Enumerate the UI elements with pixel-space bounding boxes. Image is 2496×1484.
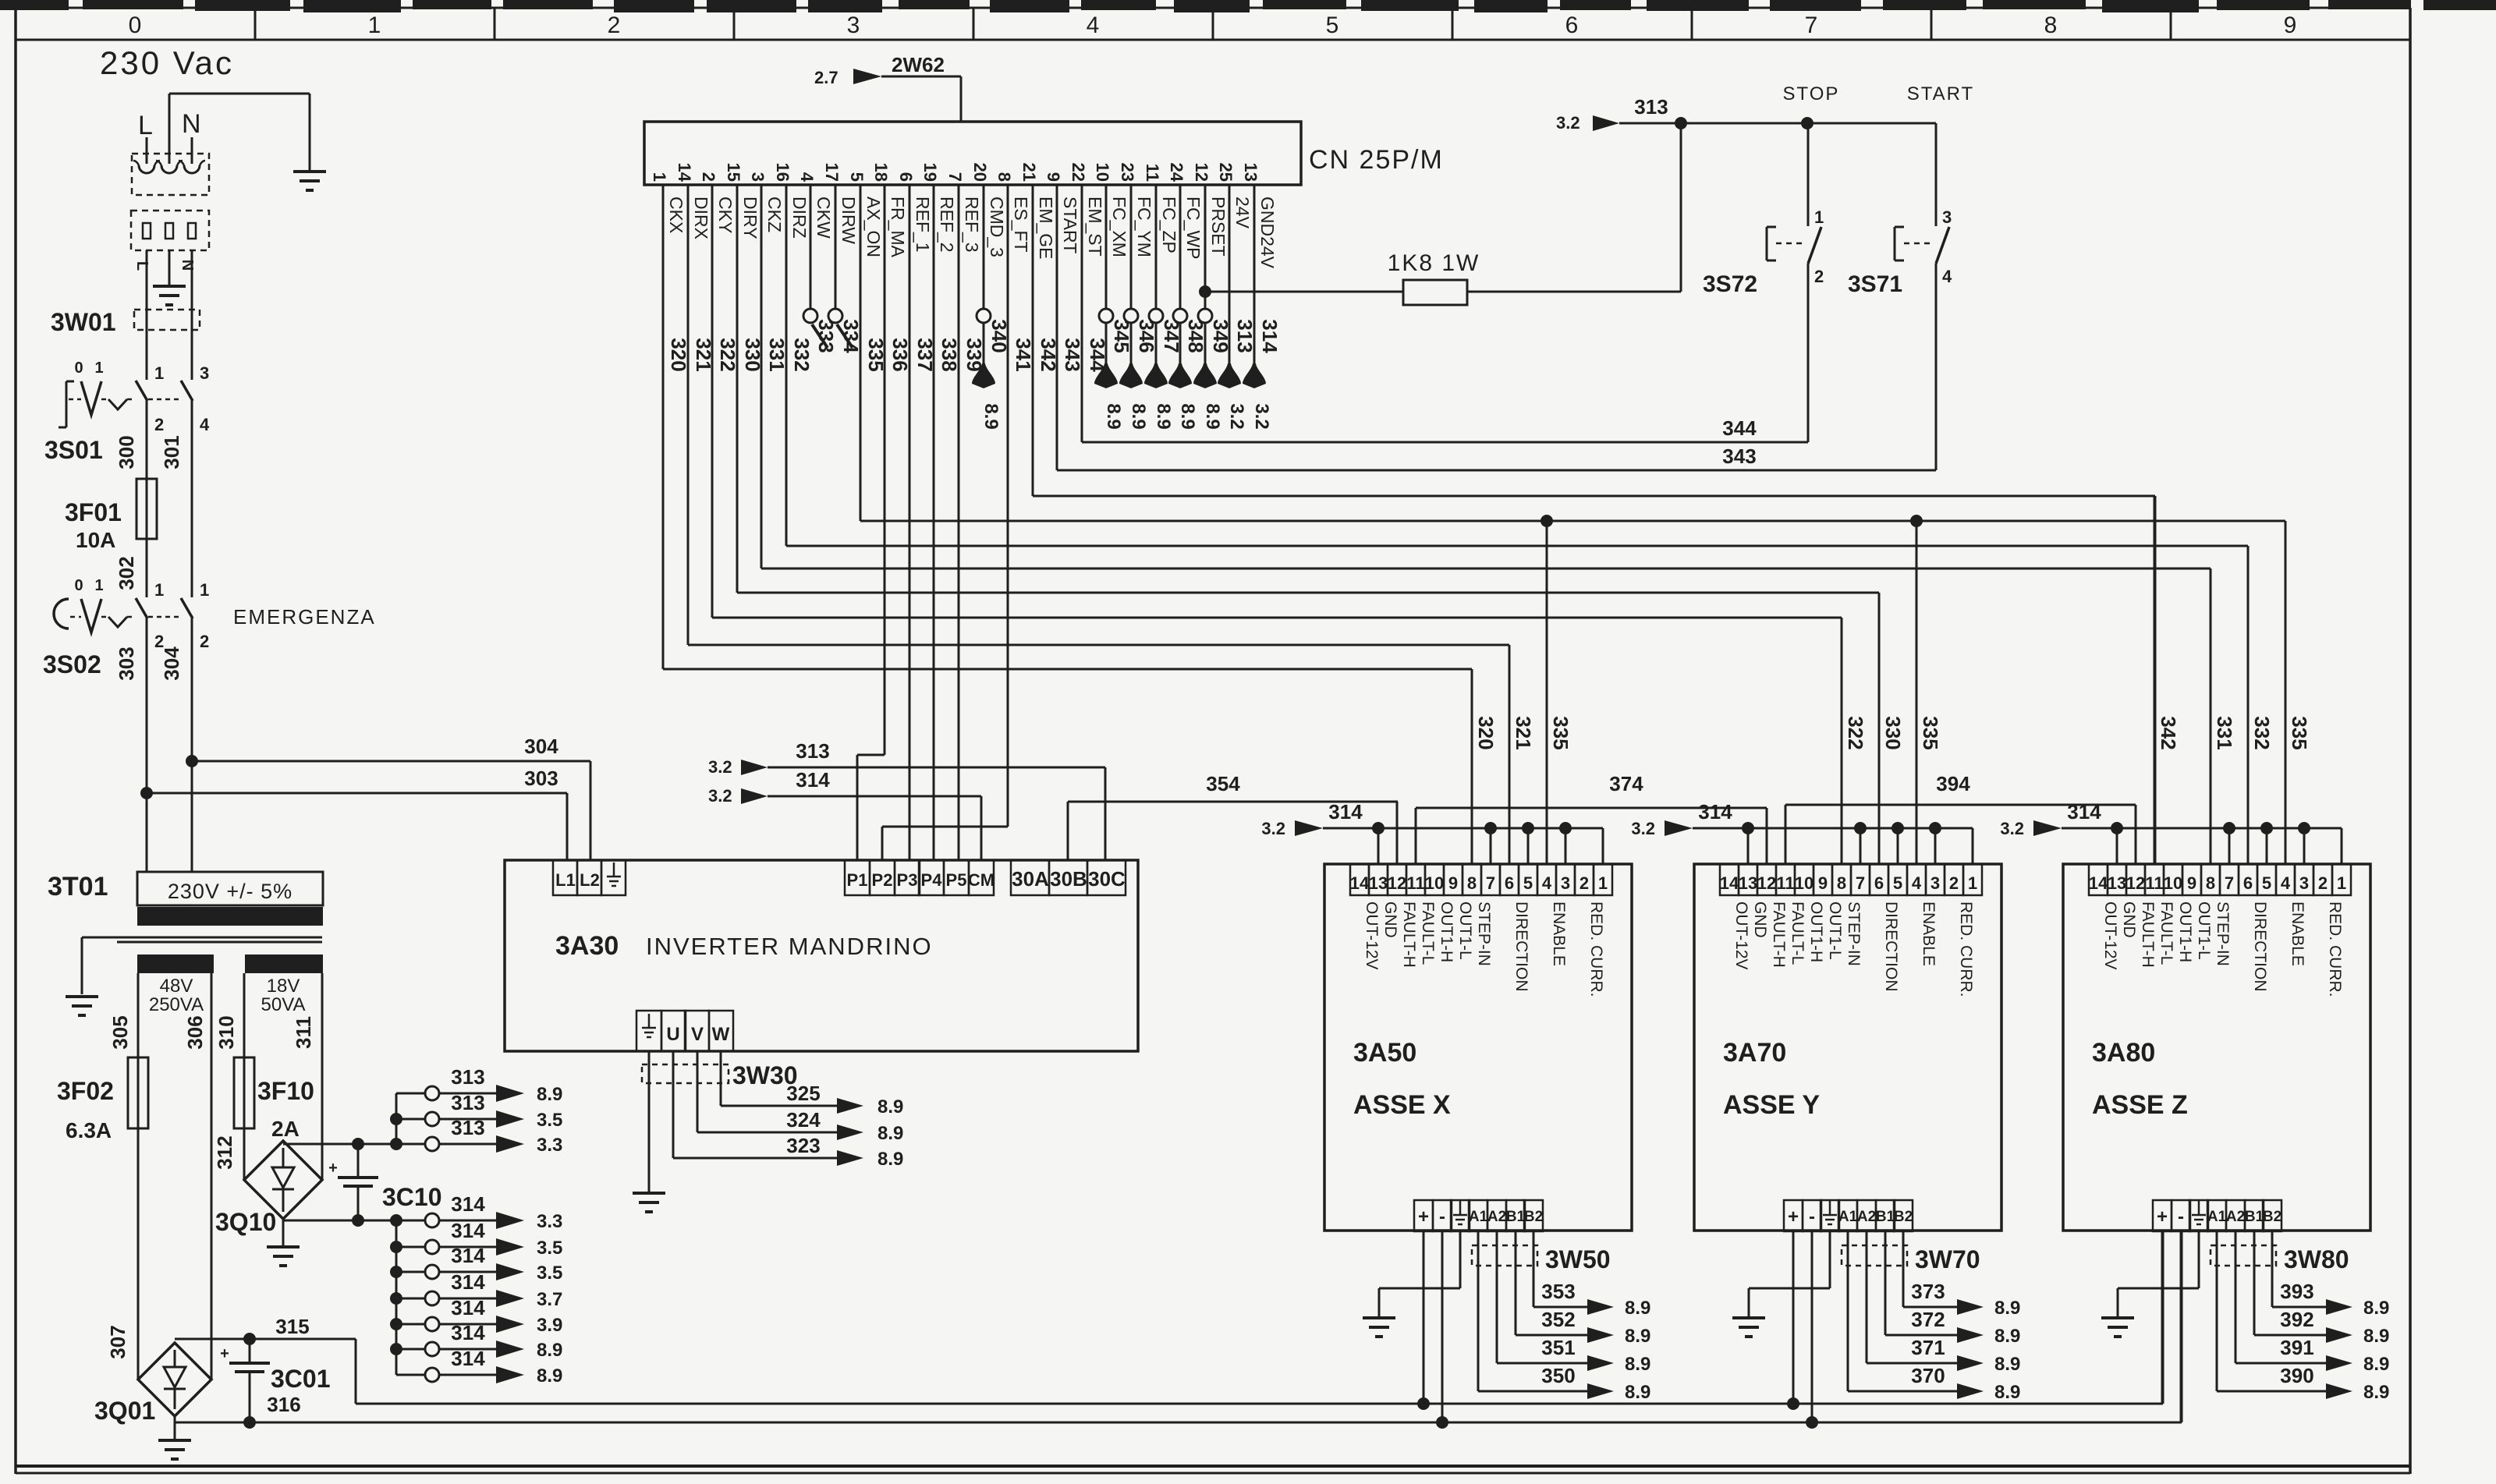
svg-text:6.3A: 6.3A [66, 1118, 112, 1142]
svg-text:10: 10 [1795, 873, 1813, 893]
svg-text:2: 2 [154, 415, 164, 434]
svg-text:3.2: 3.2 [2000, 819, 2024, 838]
svg-text:P5: P5 [946, 870, 967, 890]
svg-text:GND24V: GND24V [1257, 197, 1278, 269]
svg-text:1: 1 [1968, 873, 1977, 893]
svg-text:DIRY: DIRY [740, 197, 760, 239]
svg-text:B2: B2 [1894, 1209, 1913, 1225]
svg-text:3: 3 [200, 363, 209, 383]
svg-text:332: 332 [790, 338, 814, 371]
svg-text:24: 24 [1167, 163, 1186, 182]
svg-text:310: 310 [214, 1015, 238, 1049]
svg-text:3C10: 3C10 [382, 1183, 442, 1211]
svg-text:3.3: 3.3 [537, 1211, 562, 1232]
svg-text:B1: B1 [1876, 1209, 1895, 1225]
svg-text:3.5: 3.5 [537, 1263, 562, 1284]
svg-text:6: 6 [896, 172, 916, 182]
svg-text:314: 314 [451, 1219, 485, 1242]
svg-text:6: 6 [1505, 873, 1514, 893]
svg-text:8: 8 [2044, 12, 2058, 38]
svg-text:352: 352 [1541, 1308, 1575, 1331]
svg-text:230 Vac: 230 Vac [100, 44, 234, 81]
svg-text:25: 25 [1216, 163, 1236, 182]
svg-text:INVERTER MANDRINO: INVERTER MANDRINO [646, 933, 933, 960]
svg-text:20: 20 [970, 163, 990, 182]
svg-text:331: 331 [2213, 716, 2236, 749]
svg-text:322: 322 [1844, 716, 1867, 749]
svg-text:3W50: 3W50 [1545, 1245, 1611, 1273]
svg-text:7: 7 [2225, 873, 2234, 893]
svg-text:250VA: 250VA [149, 994, 204, 1015]
svg-text:3: 3 [1561, 873, 1570, 893]
svg-text:14: 14 [1720, 873, 1739, 893]
svg-text:3S02: 3S02 [43, 650, 101, 678]
svg-text:3A70: 3A70 [1723, 1038, 1786, 1068]
svg-text:1: 1 [1598, 873, 1608, 893]
svg-text:CM: CM [968, 870, 994, 890]
svg-text:P3: P3 [897, 870, 918, 890]
svg-text:0: 0 [74, 359, 83, 377]
svg-text:1: 1 [2337, 873, 2346, 893]
svg-text:3.2: 3.2 [1631, 819, 1655, 838]
svg-text:6: 6 [1565, 12, 1579, 38]
svg-text:3.2: 3.2 [1556, 113, 1580, 133]
svg-text:23: 23 [1118, 163, 1137, 182]
svg-text:REF_1: REF_1 [913, 197, 933, 253]
svg-text:DIRECTION: DIRECTION [1882, 901, 1900, 992]
svg-text:12: 12 [1192, 163, 1211, 182]
svg-text:OUT1-L: OUT1-L [1826, 901, 1844, 960]
svg-text:2A: 2A [271, 1117, 300, 1141]
svg-text:3W01: 3W01 [51, 308, 116, 336]
svg-text:8.9: 8.9 [980, 403, 1002, 429]
svg-text:22: 22 [1069, 163, 1088, 182]
svg-text:+: + [1418, 1206, 1429, 1227]
svg-text:330: 330 [1881, 716, 1905, 749]
svg-text:313: 313 [796, 739, 829, 763]
svg-text:5: 5 [1523, 873, 1533, 893]
svg-text:CKY: CKY [715, 197, 736, 233]
svg-text:11: 11 [1776, 873, 1794, 893]
svg-text:230V +/- 5%: 230V +/- 5% [168, 880, 292, 903]
svg-text:307: 307 [106, 1325, 129, 1358]
svg-text:ENABLE: ENABLE [1550, 901, 1568, 966]
svg-text:5: 5 [847, 172, 867, 182]
svg-text:8.9: 8.9 [1994, 1298, 2020, 1319]
svg-text:314: 314 [1328, 800, 1363, 823]
svg-text:FR_MA: FR_MA [888, 197, 908, 258]
svg-text:DIRX: DIRX [691, 197, 711, 239]
svg-text:14: 14 [2089, 873, 2108, 893]
svg-text:3.2: 3.2 [1226, 403, 1247, 429]
svg-text:AX_ON: AX_ON [863, 197, 884, 257]
svg-text:CKZ: CKZ [764, 197, 785, 232]
svg-text:10: 10 [1093, 163, 1112, 182]
svg-text:353: 353 [1541, 1280, 1575, 1303]
svg-text:ES_FT: ES_FT [1011, 197, 1031, 253]
svg-text:A2: A2 [2226, 1209, 2245, 1225]
svg-text:8: 8 [1467, 873, 1477, 893]
svg-text:8.9: 8.9 [1177, 403, 1198, 429]
svg-text:+: + [1788, 1206, 1799, 1227]
svg-text:3Q10: 3Q10 [215, 1208, 276, 1236]
svg-text:1: 1 [368, 12, 381, 38]
svg-text:A1: A1 [1838, 1209, 1858, 1225]
svg-text:372: 372 [1911, 1308, 1945, 1331]
svg-text:OUT1-L: OUT1-L [2195, 901, 2213, 960]
svg-text:316: 316 [267, 1393, 300, 1416]
svg-text:STEP-IN: STEP-IN [1845, 901, 1863, 966]
svg-text:314: 314 [1258, 319, 1282, 353]
svg-text:8.9: 8.9 [2363, 1382, 2389, 1403]
svg-text:11: 11 [2145, 873, 2163, 893]
svg-text:350: 350 [1541, 1364, 1575, 1387]
svg-text:CKW: CKW [814, 197, 834, 239]
svg-text:STEP-IN: STEP-IN [1475, 901, 1493, 966]
svg-text:-: - [1439, 1206, 1445, 1227]
svg-text:GND: GND [2120, 901, 2138, 938]
svg-text:18: 18 [871, 163, 891, 182]
svg-text:3S72: 3S72 [1703, 271, 1757, 297]
svg-text:CKX: CKX [666, 197, 686, 233]
svg-text:2: 2 [1579, 873, 1589, 893]
svg-text:8: 8 [1837, 873, 1846, 893]
svg-text:313: 313 [1634, 95, 1668, 119]
svg-text:L: L [133, 261, 151, 271]
svg-text:8.9: 8.9 [877, 1123, 903, 1144]
svg-text:OUT1-H: OUT1-H [2176, 901, 2194, 962]
svg-text:15: 15 [724, 163, 743, 182]
svg-text:394: 394 [1936, 772, 1970, 795]
svg-text:ASSE X: ASSE X [1353, 1090, 1451, 1120]
svg-text:10A: 10A [76, 528, 115, 552]
svg-text:302: 302 [115, 556, 138, 590]
svg-text:+: + [328, 1160, 338, 1177]
svg-text:305: 305 [108, 1015, 132, 1049]
svg-text:304: 304 [524, 735, 558, 758]
svg-text:4: 4 [1087, 12, 1100, 38]
svg-text:L1: L1 [555, 870, 576, 890]
svg-text:4: 4 [1542, 873, 1552, 893]
svg-text:311: 311 [292, 1016, 315, 1049]
svg-text:8.9: 8.9 [1103, 403, 1124, 429]
svg-text:4: 4 [200, 415, 210, 434]
svg-text:5: 5 [2262, 873, 2271, 893]
svg-text:V: V [691, 1024, 704, 1045]
svg-text:1: 1 [1814, 207, 1824, 227]
svg-text:24V: 24V [1232, 197, 1253, 229]
svg-text:+: + [2157, 1206, 2168, 1227]
svg-text:13: 13 [1369, 873, 1388, 893]
svg-text:1: 1 [200, 580, 209, 600]
svg-text:8.9: 8.9 [1625, 1354, 1650, 1375]
svg-text:1: 1 [154, 363, 164, 383]
svg-text:7: 7 [945, 172, 965, 182]
svg-text:314: 314 [451, 1192, 485, 1216]
svg-text:7: 7 [1856, 873, 1865, 893]
svg-text:A1: A1 [1469, 1209, 1488, 1225]
svg-text:13: 13 [2108, 873, 2126, 893]
svg-text:0: 0 [129, 12, 142, 38]
svg-text:3.2: 3.2 [1251, 403, 1272, 429]
svg-text:DIRECTION: DIRECTION [2251, 901, 2269, 992]
svg-text:8.9: 8.9 [2363, 1354, 2389, 1375]
svg-text:12: 12 [2126, 873, 2145, 893]
svg-text:OUT-12V: OUT-12V [1732, 901, 1750, 970]
svg-text:335: 335 [1919, 716, 1942, 749]
svg-text:312: 312 [213, 1135, 236, 1169]
svg-text:4: 4 [1942, 267, 1952, 286]
svg-text:+: + [220, 1345, 229, 1362]
svg-text:13: 13 [1241, 163, 1260, 182]
svg-text:5: 5 [1893, 873, 1902, 893]
svg-text:3T01: 3T01 [48, 872, 108, 901]
svg-text:RED. CURR.: RED. CURR. [1957, 901, 1975, 997]
svg-text:FAULT-H: FAULT-H [1400, 901, 1418, 968]
svg-text:B2: B2 [1524, 1209, 1543, 1225]
svg-text:9: 9 [1448, 873, 1458, 893]
svg-text:8.9: 8.9 [1625, 1382, 1650, 1403]
svg-text:8.9: 8.9 [537, 1084, 562, 1105]
svg-text:343: 343 [1722, 444, 1756, 468]
svg-text:3F02: 3F02 [57, 1077, 114, 1105]
svg-text:DIRW: DIRW [838, 197, 859, 244]
svg-text:L: L [138, 111, 153, 140]
svg-text:-: - [2178, 1206, 2184, 1227]
svg-text:392: 392 [2280, 1308, 2313, 1331]
svg-text:3.2: 3.2 [708, 786, 732, 806]
svg-text:13: 13 [1739, 873, 1757, 893]
svg-text:8: 8 [994, 172, 1014, 182]
svg-text:342: 342 [2157, 716, 2180, 749]
svg-text:11: 11 [1406, 873, 1424, 893]
svg-text:3: 3 [1930, 873, 1940, 893]
svg-text:303: 303 [524, 767, 558, 790]
svg-text:3: 3 [2299, 873, 2309, 893]
svg-text:8.9: 8.9 [1153, 403, 1174, 429]
svg-text:2: 2 [699, 172, 718, 182]
svg-text:FAULT-H: FAULT-H [2139, 901, 2157, 968]
svg-text:GND: GND [1381, 901, 1399, 938]
svg-text:A1: A1 [2207, 1209, 2227, 1225]
svg-text:3: 3 [1942, 207, 1952, 227]
svg-text:1: 1 [154, 580, 164, 600]
svg-text:313: 313 [451, 1116, 484, 1139]
svg-text:FAULT-L: FAULT-L [1419, 901, 1437, 965]
svg-text:19: 19 [920, 163, 940, 182]
svg-text:N: N [179, 260, 196, 271]
svg-text:PRSET: PRSET [1208, 197, 1228, 257]
svg-text:STEP-IN: STEP-IN [2214, 901, 2232, 966]
svg-text:3: 3 [847, 12, 860, 38]
svg-text:335: 335 [2288, 716, 2311, 749]
svg-text:3C01: 3C01 [271, 1365, 331, 1393]
svg-text:FC_XM: FC_XM [1109, 197, 1129, 257]
svg-text:21: 21 [1019, 163, 1039, 182]
svg-text:321: 321 [1512, 716, 1535, 749]
svg-text:1: 1 [94, 359, 103, 377]
svg-text:303: 303 [115, 646, 138, 680]
svg-text:12: 12 [1757, 873, 1776, 893]
svg-text:8.9: 8.9 [1625, 1326, 1650, 1347]
svg-text:P4: P4 [921, 870, 943, 890]
svg-text:3.7: 3.7 [537, 1289, 562, 1310]
svg-text:18V: 18V [267, 976, 300, 997]
svg-text:FC_YM: FC_YM [1134, 197, 1154, 257]
svg-text:ENABLE: ENABLE [1920, 901, 1938, 966]
svg-text:48V: 48V [160, 976, 193, 997]
svg-text:6: 6 [2243, 873, 2253, 893]
svg-text:14: 14 [1350, 873, 1370, 893]
svg-text:371: 371 [1911, 1336, 1945, 1359]
svg-text:3A80: 3A80 [2092, 1038, 2155, 1068]
svg-text:5: 5 [1326, 12, 1339, 38]
svg-text:2.7: 2.7 [814, 68, 838, 87]
svg-text:3: 3 [748, 172, 768, 182]
svg-text:P2: P2 [872, 870, 893, 890]
svg-text:9: 9 [2284, 12, 2297, 38]
svg-text:301: 301 [160, 435, 183, 469]
svg-text:2: 2 [2318, 873, 2328, 893]
svg-text:8.9: 8.9 [1202, 403, 1223, 429]
svg-text:306: 306 [183, 1015, 207, 1049]
svg-text:391: 391 [2280, 1336, 2313, 1359]
svg-text:OUT1-L: OUT1-L [1456, 901, 1474, 960]
svg-text:9: 9 [1044, 172, 1063, 182]
svg-text:8.9: 8.9 [1994, 1382, 2020, 1403]
svg-text:11: 11 [1143, 164, 1162, 182]
svg-text:320: 320 [1474, 716, 1498, 749]
svg-text:ENABLE: ENABLE [2289, 901, 2306, 966]
svg-text:B2: B2 [2263, 1209, 2281, 1225]
svg-text:GND: GND [1751, 901, 1769, 938]
svg-text:8.9: 8.9 [1994, 1326, 2020, 1347]
svg-text:2: 2 [1814, 267, 1824, 286]
svg-text:REF_2: REF_2 [937, 197, 957, 253]
svg-text:DIRZ: DIRZ [789, 197, 810, 239]
svg-text:313: 313 [451, 1091, 484, 1114]
svg-text:300: 300 [115, 435, 138, 469]
svg-text:314: 314 [451, 1321, 485, 1344]
svg-text:12: 12 [1388, 873, 1406, 893]
svg-text:3.3: 3.3 [537, 1135, 562, 1156]
svg-text:EMERGENZA: EMERGENZA [233, 605, 376, 629]
svg-text:16: 16 [773, 163, 792, 182]
svg-text:OUT1-H: OUT1-H [1807, 901, 1825, 962]
svg-text:315: 315 [275, 1315, 309, 1338]
svg-text:W: W [712, 1024, 730, 1045]
svg-text:354: 354 [1206, 772, 1240, 795]
svg-text:314: 314 [451, 1270, 485, 1294]
svg-text:344: 344 [1722, 416, 1757, 440]
svg-text:1: 1 [650, 172, 669, 182]
svg-text:8: 8 [2206, 873, 2215, 893]
svg-text:N: N [182, 109, 201, 139]
svg-text:323: 323 [786, 1134, 820, 1157]
svg-text:0: 0 [74, 577, 83, 594]
svg-text:314: 314 [1698, 800, 1732, 823]
svg-text:START: START [1907, 83, 1974, 104]
svg-text:3W70: 3W70 [1915, 1245, 1980, 1273]
svg-text:ASSE Y: ASSE Y [1723, 1090, 1820, 1120]
svg-text:B1: B1 [2245, 1209, 2264, 1225]
svg-text:7: 7 [1486, 873, 1495, 893]
svg-text:3.2: 3.2 [1261, 819, 1285, 838]
svg-text:393: 393 [2280, 1280, 2313, 1303]
svg-text:3W80: 3W80 [2284, 1245, 2349, 1273]
svg-text:CMD_3: CMD_3 [987, 197, 1007, 257]
svg-text:RED. CURR.: RED. CURR. [2326, 901, 2344, 997]
svg-text:7: 7 [1805, 12, 1818, 38]
svg-text:U: U [666, 1024, 679, 1045]
svg-text:1: 1 [94, 577, 103, 594]
svg-text:FAULT-H: FAULT-H [1770, 901, 1788, 968]
svg-text:8.9: 8.9 [537, 1365, 562, 1387]
svg-text:FC_ZP: FC_ZP [1159, 197, 1179, 253]
svg-text:8.9: 8.9 [1128, 403, 1149, 429]
svg-text:-: - [1809, 1206, 1815, 1227]
svg-text:REF_3: REF_3 [962, 197, 982, 253]
svg-text:2: 2 [200, 632, 209, 651]
svg-text:L2: L2 [580, 870, 600, 890]
svg-text:A2: A2 [1857, 1209, 1876, 1225]
svg-text:3A30: 3A30 [555, 931, 619, 961]
svg-text:START: START [1060, 197, 1080, 253]
svg-text:OUT-12V: OUT-12V [1363, 901, 1381, 970]
svg-text:3F10: 3F10 [257, 1077, 314, 1105]
svg-text:324: 324 [786, 1108, 821, 1132]
svg-text:8.9: 8.9 [2363, 1298, 2389, 1319]
svg-text:3.2: 3.2 [708, 757, 732, 777]
svg-text:390: 390 [2280, 1364, 2313, 1387]
svg-text:10: 10 [2164, 873, 2182, 893]
svg-text:332: 332 [2250, 716, 2274, 749]
svg-text:304: 304 [160, 646, 183, 681]
svg-text:FAULT-L: FAULT-L [2157, 901, 2175, 965]
svg-text:DIRECTION: DIRECTION [1512, 901, 1530, 992]
svg-text:9: 9 [1818, 873, 1828, 893]
svg-text:B1: B1 [1506, 1209, 1526, 1225]
svg-text:8.9: 8.9 [1625, 1298, 1650, 1319]
svg-text:9: 9 [2187, 873, 2196, 893]
svg-text:RED. CURR.: RED. CURR. [1587, 901, 1605, 997]
svg-text:3.5: 3.5 [537, 1110, 562, 1131]
svg-text:373: 373 [1911, 1280, 1945, 1303]
svg-text:2W62: 2W62 [892, 53, 945, 76]
svg-text:2: 2 [1949, 873, 1959, 893]
svg-text:3S71: 3S71 [1848, 271, 1902, 297]
svg-text:FC_WP: FC_WP [1183, 197, 1204, 260]
svg-text:1K8 1W: 1K8 1W [1388, 250, 1480, 276]
svg-text:314: 314 [796, 768, 830, 792]
svg-text:A2: A2 [1487, 1209, 1506, 1225]
svg-text:ASSE Z: ASSE Z [2092, 1090, 2188, 1120]
svg-text:30A: 30A [1012, 867, 1049, 891]
svg-text:374: 374 [1609, 772, 1643, 795]
svg-text:17: 17 [822, 163, 842, 182]
svg-text:3S01: 3S01 [44, 436, 103, 464]
svg-text:6: 6 [1874, 873, 1884, 893]
svg-text:30B: 30B [1050, 867, 1087, 891]
svg-text:10: 10 [1425, 873, 1444, 893]
svg-text:4: 4 [797, 172, 817, 182]
svg-text:314: 314 [451, 1244, 485, 1267]
svg-text:4: 4 [2281, 873, 2291, 893]
svg-text:8.9: 8.9 [877, 1149, 903, 1170]
svg-text:EM_ST: EM_ST [1085, 197, 1105, 257]
svg-text:3.5: 3.5 [537, 1238, 562, 1259]
svg-text:8.9: 8.9 [877, 1096, 903, 1117]
